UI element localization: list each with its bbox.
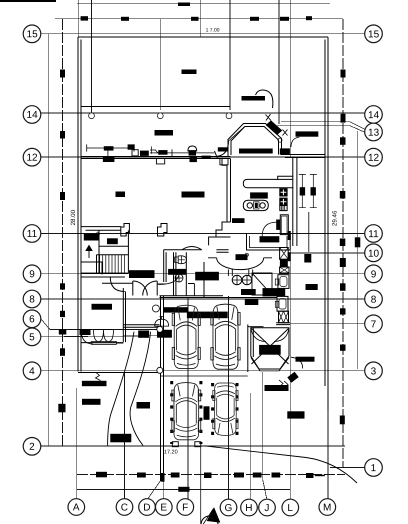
- row 13 grid line b: [270, 126, 365, 133]
- window sill T 1: [156, 159, 164, 164]
- small circle by blob: [245, 253, 248, 256]
- stair blob small: [108, 239, 118, 244]
- short vertical near kitchen: [308, 212, 310, 252]
- kitchen door blob: [233, 219, 245, 223]
- right dim blob 5: [340, 239, 346, 247]
- svg-text:4: 4: [29, 366, 35, 377]
- stair post 2: [158, 224, 168, 237]
- kitchen bottom blob: [260, 237, 279, 242]
- column A grid line: [76, 388, 78, 499]
- svg-text:9: 9: [29, 269, 35, 280]
- row 7 grid line: [290, 323, 365, 325]
- car 2: [211, 304, 240, 369]
- tick at door: [215, 151, 218, 159]
- bubble 7 right: [365, 315, 383, 333]
- row 12 grid line: [40, 156, 365, 158]
- row12 wall right segment lower: [285, 157, 325, 159]
- left tick pair: [150, 146, 160, 153]
- blob drive 2: [111, 434, 131, 442]
- garage bar blob: [265, 386, 288, 391]
- svg-text:M: M: [323, 503, 331, 514]
- left wall lower blob: [92, 304, 112, 309]
- entrance arc big: [204, 446, 357, 483]
- wall blob w7 above: [155, 130, 174, 136]
- bubble L: [282, 499, 299, 516]
- column circle at D14: [89, 113, 95, 119]
- left dim blob 5: [60, 311, 65, 317]
- utility black band: [263, 289, 285, 296]
- svg-text:13: 13: [368, 128, 380, 139]
- column L grid line: [289, 246, 291, 500]
- blob drive 1: [137, 403, 150, 409]
- bubble 11 right: [365, 225, 383, 243]
- hall blob: [182, 192, 204, 197]
- column D grid line: [147, 455, 160, 500]
- sink cross 1: [281, 190, 287, 196]
- wc right wall: [185, 252, 187, 296]
- bubble D: [139, 499, 156, 516]
- stair blob: [84, 234, 99, 240]
- svg-text:8: 8: [29, 294, 35, 305]
- left window black bar: [82, 381, 106, 385]
- dining wall bottom steps: [209, 222, 231, 245]
- bottom dim blob 2: [137, 473, 146, 478]
- room right wall: [123, 288, 125, 342]
- curve into bay: [256, 90, 273, 108]
- bottom dim blob 7: [272, 473, 281, 478]
- wc room top wall: [164, 250, 229, 253]
- stove burner 2: [260, 203, 265, 208]
- svg-text:A: A: [73, 502, 80, 513]
- left rooms bottom wall: [78, 371, 160, 373]
- column H grid line: [249, 393, 251, 500]
- dim line left part: [87, 144, 134, 151]
- svg-text:9: 9: [371, 269, 377, 280]
- pantry vertical wall: [296, 157, 298, 246]
- bubble 14 right: [365, 106, 383, 124]
- wall blob w2 (big below): [103, 157, 115, 162]
- stair inner vertical: [97, 230, 100, 273]
- bath sink 2: [242, 275, 252, 285]
- wc bidet: [175, 274, 183, 282]
- blob right wall: [306, 285, 317, 290]
- door blob hall: [158, 330, 172, 337]
- right bracket blob a: [300, 188, 304, 195]
- door arc garage right: [291, 357, 303, 368]
- column circle at E14: [157, 113, 163, 119]
- right dim blob 2: [341, 114, 346, 123]
- bubble 1 right: [365, 459, 383, 477]
- car3 stop box left: [172, 442, 178, 447]
- car 3: [172, 383, 201, 440]
- living room blob: [116, 192, 125, 197]
- ramp arc left: [251, 328, 266, 342]
- corridor door arc: [159, 275, 180, 285]
- bubble 5 left: [23, 328, 41, 346]
- wardrobe scallops: [91, 330, 116, 345]
- bubble H: [241, 499, 258, 516]
- node circle row6: [157, 326, 163, 332]
- bubble 10 right: [365, 244, 383, 262]
- right bracket dim line b: [310, 174, 317, 207]
- bottom dim blob tick E: [161, 473, 165, 482]
- hatched piece: [280, 205, 287, 210]
- door leaf black: [277, 220, 280, 229]
- bay window outer: [228, 124, 282, 157]
- door blob bl: [80, 330, 90, 335]
- extension line x91.5 top: [91, 0, 93, 113]
- stair mid rail 1: [99, 245, 128, 247]
- closet top right corner: [81, 262, 102, 275]
- svg-text:11: 11: [27, 229, 38, 240]
- left dim blob 7: [60, 348, 65, 356]
- row12 window wall upper: [81, 156, 230, 158]
- blob lower left: [83, 399, 101, 404]
- car 1: [172, 305, 200, 368]
- bay hatch left: [229, 127, 245, 141]
- stair pivot diamond: [96, 232, 100, 236]
- wc bidet cross: [175, 274, 183, 282]
- right dim blob 6: [340, 258, 346, 267]
- kitchen counter bar: [243, 176, 293, 188]
- door umbrella symbol: [155, 317, 169, 327]
- svg-text:2: 2: [29, 442, 35, 453]
- kitchen right wall (L) double: [292, 157, 294, 246]
- bubble 15 right: [365, 25, 383, 43]
- bay window inner: [231, 127, 279, 156]
- hall lower wall: [123, 324, 159, 326]
- row 15 grid line: [40, 33, 365, 35]
- dishwasher M box: [279, 311, 289, 323]
- svg-text:L: L: [287, 503, 293, 514]
- column F grid line: [187, 298, 189, 501]
- garage left wall double: [160, 296, 162, 481]
- wall blob dome base: [189, 150, 196, 156]
- right dim line dashed: [342, 19, 344, 468]
- blob garage label 2: [187, 312, 227, 318]
- bay hatch right blob: [267, 121, 282, 135]
- door frame wall: [188, 284, 194, 297]
- washer 1: [278, 275, 289, 289]
- outer wall right inner: [324, 39, 326, 386]
- right dim blob 4: [340, 191, 346, 199]
- ramp arc right: [274, 328, 289, 342]
- blob topleft room: [182, 70, 197, 75]
- bubble 3 right: [365, 362, 383, 380]
- kitchen bottom U wall: [247, 234, 291, 251]
- svg-text:10: 10: [368, 249, 380, 260]
- utility x-box top: [280, 248, 289, 260]
- bubble 9 right: [365, 265, 383, 283]
- column circle at G14: [226, 113, 232, 119]
- bubble 13 right: [365, 123, 383, 141]
- row12 wall right segment upper: [281, 154, 325, 156]
- wall blob w4b: [218, 147, 228, 151]
- dim blob top line: [178, 3, 190, 7]
- column G grid line: [228, 296, 230, 500]
- bottom dim blob 6: [253, 473, 262, 478]
- hall big archway half-ellipse: [217, 258, 264, 270]
- blob stem: [107, 151, 109, 158]
- small room bottom left wall: [117, 342, 124, 344]
- wc room arc bump: [182, 247, 202, 250]
- leader hook: [96, 373, 101, 381]
- kitchen door arc: [262, 222, 277, 237]
- stair post 1: [121, 224, 130, 237]
- row 3 grid line: [160, 370, 365, 372]
- bubble 12 left: [23, 148, 41, 166]
- terrace bottom wall: [81, 105, 230, 107]
- garage floor line: [161, 375, 248, 377]
- stove black mark: [255, 203, 258, 208]
- stove inner marks: [254, 202, 260, 209]
- bath left wall: [203, 262, 205, 298]
- svg-text:12: 12: [368, 153, 380, 164]
- row 6 grid line: [41, 319, 160, 330]
- washer 1 door: [280, 277, 287, 287]
- row 14 grid line: [40, 112, 365, 114]
- ramp X diagonal 1: [252, 329, 289, 365]
- diagonal blob gate: [288, 373, 298, 383]
- svg-text:F: F: [182, 502, 188, 513]
- sink cross 2: [281, 199, 287, 205]
- right dim line 2: [357, 131, 359, 369]
- garage top wall: [160, 295, 224, 297]
- utility x-box top X: [280, 248, 289, 260]
- right dim blob 9: [340, 345, 346, 351]
- right dim blob 10: [340, 416, 345, 425]
- ramp inner bottom: [251, 358, 289, 371]
- bubble 4 left: [23, 362, 41, 380]
- driveway curve left a: [108, 332, 134, 446]
- bubble 8 left: [23, 290, 41, 308]
- row12 window wall lower: [81, 158, 230, 160]
- left dim blob 3: [60, 192, 65, 200]
- stair side wall right: [127, 230, 129, 273]
- svg-text:12: 12: [26, 153, 38, 164]
- entry hall top wall 2: [81, 276, 125, 278]
- door arc hall left: [110, 277, 124, 292]
- ramp blob: [260, 345, 281, 354]
- washer 1 knob: [275, 279, 278, 285]
- dim blob 17 line a0: [81, 16, 88, 20]
- door leaf left: [132, 281, 134, 296]
- entry blob 1: [130, 271, 155, 278]
- wall black mark r12: [280, 149, 289, 154]
- bath sink cross 1: [232, 275, 242, 285]
- blob hall 2: [139, 331, 149, 337]
- hatch lines: [281, 205, 284, 210]
- wc blob: [169, 269, 186, 274]
- chevron marks: [279, 380, 288, 388]
- window box: [132, 150, 138, 156]
- row 5 grid line: [41, 336, 160, 337]
- main double door wall left: [102, 282, 133, 284]
- svg-text:G: G: [224, 503, 232, 514]
- washer 2 knob: [275, 301, 278, 307]
- svg-text:15: 15: [27, 29, 39, 40]
- garage left wall inner: [163, 296, 165, 481]
- dim blob 17 line e: [306, 16, 312, 20]
- bubble 2 left: [23, 438, 41, 456]
- bottom dim line dashed: [77, 474, 345, 476]
- hall lower wall 2: [123, 326, 159, 328]
- bubble 9 left: [23, 265, 41, 283]
- right dim blob 7: [340, 283, 346, 291]
- cabinet inner: [282, 216, 287, 233]
- washer 2 door: [279, 299, 286, 309]
- bubble 11 left: [23, 225, 41, 243]
- wc toilet: [175, 256, 187, 264]
- svg-text:D: D: [143, 502, 150, 513]
- bath sink cross 2: [242, 275, 252, 285]
- section line near F: [200, 446, 202, 524]
- blob car4 side: [204, 407, 209, 420]
- dining wall top step: [222, 159, 227, 166]
- svg-text:J: J: [264, 503, 269, 514]
- bottom dim blob 5: [234, 473, 244, 478]
- row 8 grid line: [40, 298, 365, 300]
- dim blob 17 line a: [121, 17, 129, 21]
- right dim blob 3: [340, 137, 346, 145]
- dim line centre part: [150, 149, 214, 156]
- wall blob w5: [158, 150, 167, 155]
- dishwasher M marks: [279, 311, 289, 323]
- extension line col A top: [77, 0, 79, 37]
- column E grid line: [163, 481, 165, 500]
- row 13 grid line a: [281, 122, 365, 130]
- blob garage label: [164, 308, 187, 312]
- wall fill mark a: [288, 232, 290, 240]
- utility x-box 2 X: [280, 267, 289, 273]
- car 4: [213, 383, 238, 435]
- extension line x230 top: [229, 0, 231, 110]
- parking strip wall left: [247, 325, 249, 373]
- wall blob dome below: [190, 157, 197, 163]
- row 1 grid line: [330, 467, 365, 469]
- wc toilet cross: [179, 256, 186, 264]
- svg-text:1: 1: [371, 463, 377, 474]
- bottom line2 blob: [178, 487, 189, 492]
- column circle r12: [278, 138, 282, 142]
- wall blob w5big: [239, 149, 273, 154]
- blob below row10: [305, 255, 311, 263]
- right dim blob 8: [340, 308, 346, 314]
- left dim blob 2: [60, 131, 65, 139]
- kitchen blob: [251, 193, 268, 198]
- stair arrow: [86, 246, 92, 259]
- bubble G: [220, 499, 237, 516]
- hall arc blob: [236, 255, 247, 260]
- right dim blob 5b: [355, 237, 361, 247]
- wall blob w8: [202, 156, 211, 159]
- bath blob 1: [242, 290, 256, 295]
- tall cabinet: [280, 215, 288, 235]
- bubble F: [177, 499, 194, 516]
- blob right lower: [288, 412, 304, 418]
- column J grid line: [263, 372, 267, 500]
- node circle row4: [157, 367, 163, 373]
- blob above bay: [242, 96, 266, 101]
- left dim line solid: [47, 34, 49, 446]
- top-left corner tick: [0, 0, 56, 2]
- left dim blob 6: [59, 330, 67, 335]
- svg-text:15: 15: [368, 29, 380, 40]
- bay x mark 1: [266, 114, 272, 121]
- bay x mark 2: [283, 130, 288, 136]
- bath wc blob: [196, 272, 219, 280]
- bubble A: [68, 499, 85, 516]
- wall blob w4: [140, 151, 149, 156]
- wall blob w3: [128, 144, 135, 149]
- car3 stop box right: [195, 442, 201, 447]
- room bottom wall: [81, 342, 123, 344]
- right dim blob 1: [341, 70, 346, 78]
- right bracket dim line a: [299, 174, 306, 207]
- stove burner 1: [247, 203, 252, 208]
- bottom line 2: [77, 489, 290, 491]
- ramp X diagonal 2: [252, 329, 289, 365]
- door arc bottom left room: [81, 330, 93, 344]
- parking stall ticks car3: [172, 381, 237, 444]
- bottom dim blob 8: [306, 473, 314, 478]
- svg-text:E: E: [160, 502, 167, 513]
- left dim blob 1: [60, 70, 65, 78]
- wall fill mark b: [288, 253, 290, 261]
- bubble 15 left: [23, 25, 41, 43]
- archway side walls: [208, 258, 272, 276]
- stair treads: [100, 255, 125, 273]
- bath bottom wall: [204, 297, 277, 299]
- sink box 1: [280, 189, 287, 196]
- curve below w6: [291, 137, 299, 147]
- entry hall top wall: [81, 272, 125, 274]
- door wall right stub: [157, 283, 166, 285]
- utility x-box 2: [280, 267, 289, 273]
- bottom dim blob 4: [204, 473, 212, 479]
- extension line x160 top: [159, 19, 161, 110]
- dim blob 17 line d: [280, 17, 289, 21]
- bottom dash mark: [315, 475, 325, 476]
- kitchen bottom inner: [250, 236, 288, 248]
- dim blob 17 line c: [250, 17, 259, 21]
- shower triangle: [252, 273, 272, 295]
- outer wall left: [77, 37, 79, 372]
- stair bottom line: [81, 272, 128, 274]
- svg-text:14: 14: [368, 110, 380, 121]
- stairwell top wall: [81, 227, 121, 231]
- svg-text:11: 11: [368, 229, 379, 240]
- outer wall top: [78, 36, 328, 38]
- row 2 grid line: [40, 445, 345, 447]
- bubble 14 left: [23, 106, 41, 124]
- window sill T 2: [220, 159, 228, 165]
- dimension texts: [70, 27, 339, 455]
- parking strip wall right: [252, 328, 254, 357]
- sink box 2: [280, 198, 287, 205]
- ramp top wall: [248, 326, 264, 328]
- top border line: [77, 3, 330, 5]
- blob right of ramp: [296, 357, 314, 361]
- bath sink 1: [232, 275, 242, 285]
- svg-text:1 7.00: 1 7.00: [206, 28, 220, 34]
- svg-text:H: H: [245, 503, 252, 514]
- door leaf right: [156, 281, 158, 296]
- svg-text:29.46: 29.46: [332, 210, 339, 226]
- bubble E: [156, 499, 173, 516]
- blob left dim small: [59, 404, 65, 412]
- washer 2: [277, 296, 288, 311]
